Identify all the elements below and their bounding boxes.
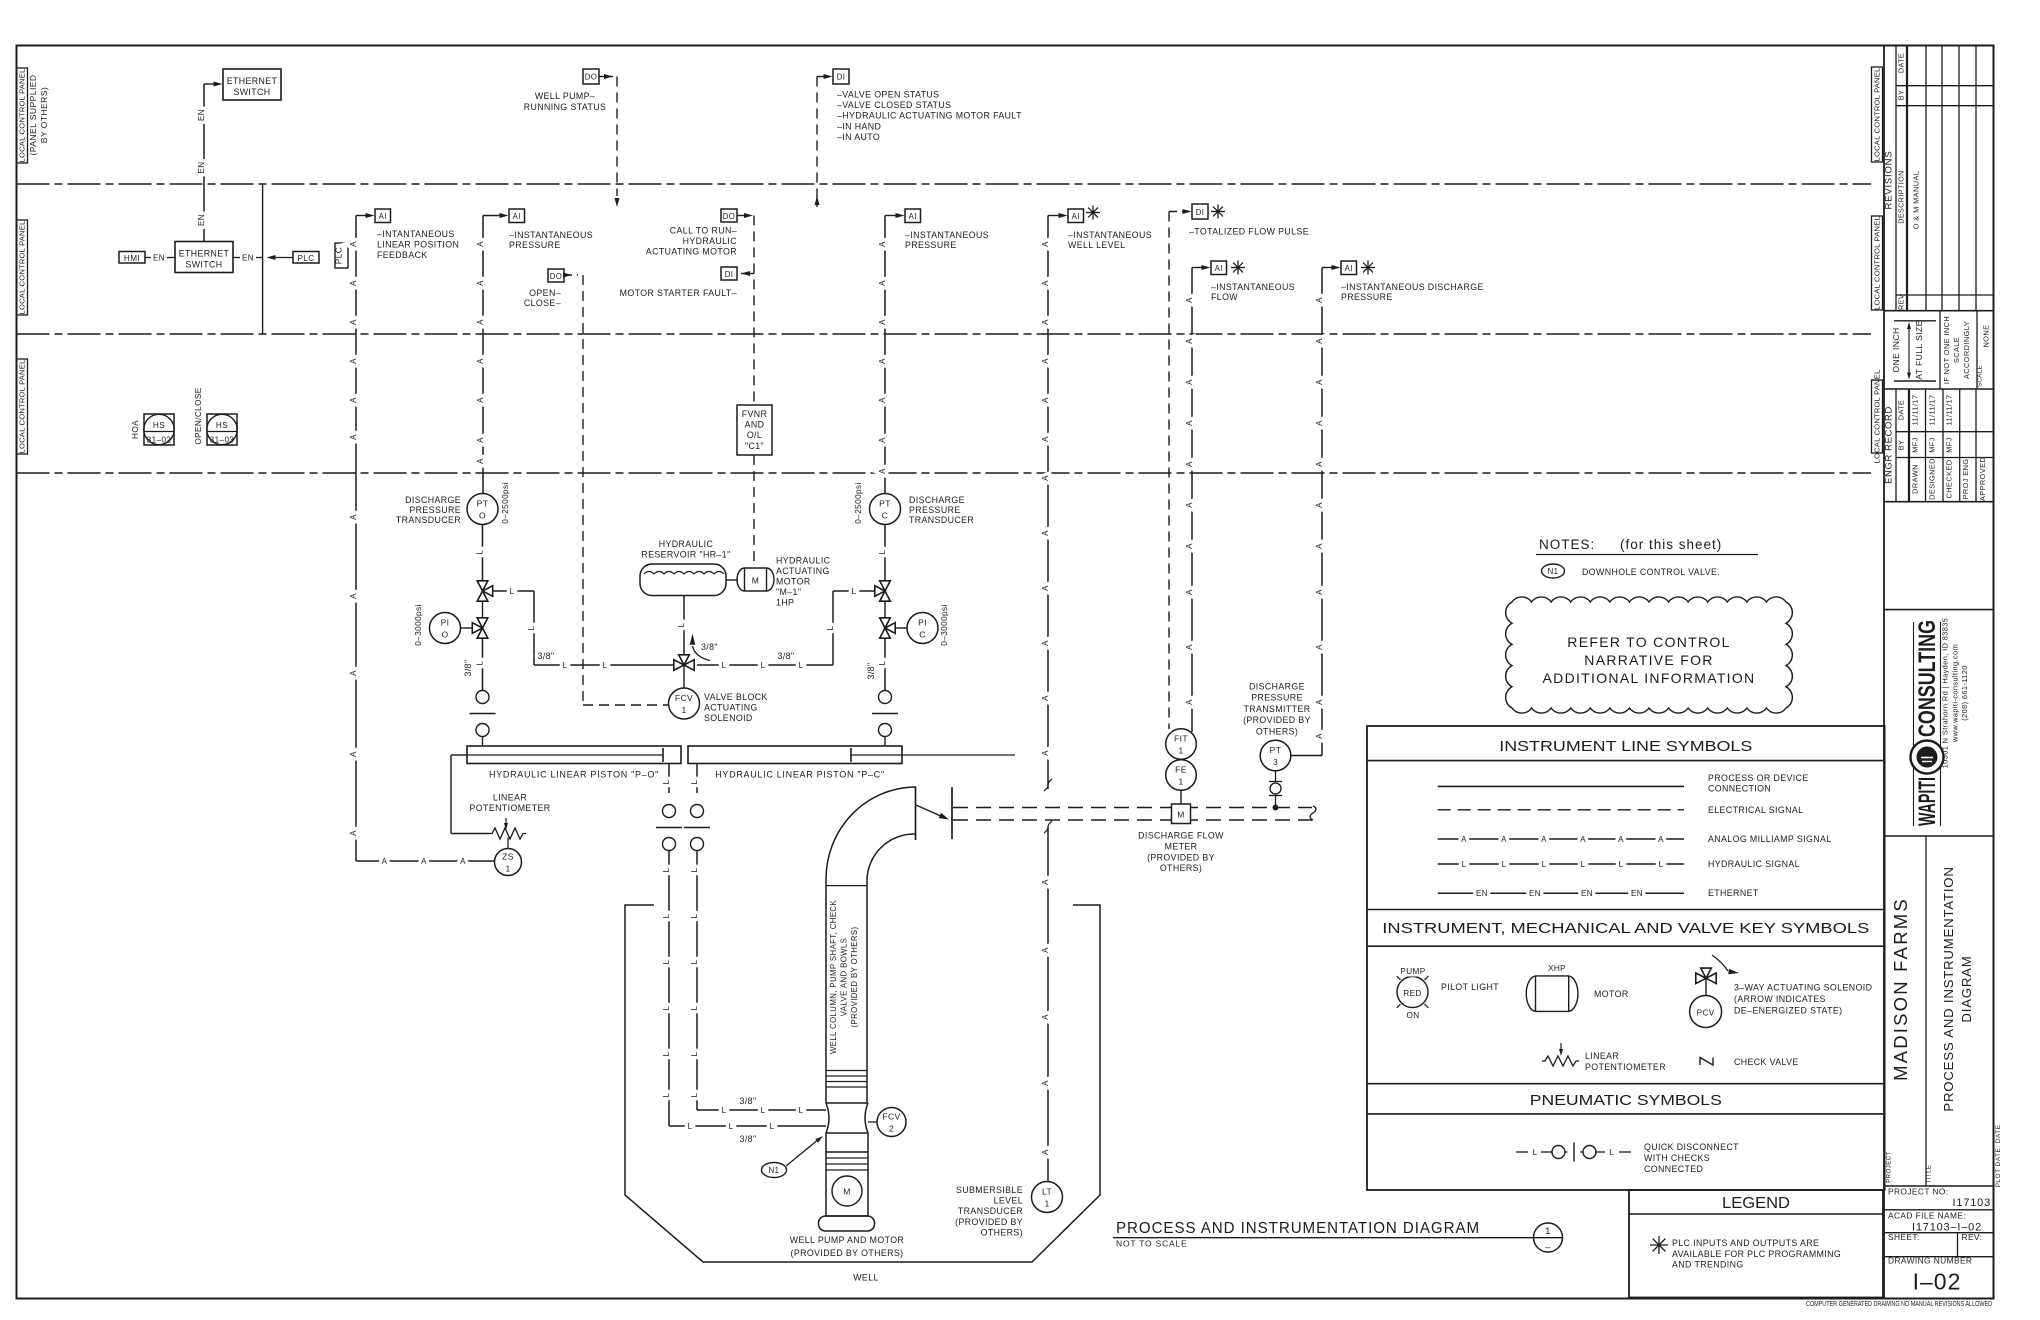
svg-text:0–3000psi: 0–3000psi (414, 604, 423, 645)
analog signal line FIT-1 to AI (1191, 268, 1193, 733)
svg-text:TRANSMITTER: TRANSMITTER (1244, 704, 1311, 714)
asterisk PLC note (1361, 267, 1375, 269)
svg-text:A: A (1185, 379, 1194, 385)
asterisk PLC note (1231, 267, 1245, 269)
svg-text:A: A (1315, 297, 1324, 303)
svg-text:DISCHARGE: DISCHARGE (909, 495, 965, 505)
svg-text:A: A (476, 241, 485, 247)
hydraulic line to quick disconnect C (884, 639, 886, 691)
svg-text:DATE: DATE (1897, 400, 1906, 420)
svg-text:LT: LT (1042, 1187, 1052, 1197)
svg-text:L: L (677, 622, 686, 627)
sample ethernet line (1438, 892, 1684, 894)
svg-text:AVAILABLE FOR PLC PROGRAMMING: AVAILABLE FOR PLC PROGRAMMING (1672, 1249, 1841, 1259)
svg-text:A: A (878, 358, 887, 364)
svg-text:A: A (1041, 695, 1050, 701)
svg-text:1: 1 (681, 705, 686, 715)
svg-text:L: L (662, 1005, 671, 1010)
svg-text:MFJ: MFJ (1945, 437, 1954, 453)
svg-text:CHECK VALVE: CHECK VALVE (1734, 1057, 1799, 1067)
svg-text:A: A (349, 751, 358, 757)
svg-text:NARRATIVE FOR: NARRATIVE FOR (1584, 652, 1713, 668)
right LOCAL CONTROL PANEL label zone 1 (1872, 67, 1883, 162)
svg-text:ETHERNET: ETHERNET (1708, 888, 1759, 898)
svg-text:LEVEL: LEVEL (994, 1196, 1023, 1206)
leader N1 to valve (786, 1139, 819, 1166)
svg-text:PT: PT (1270, 745, 1282, 755)
svg-text:LEGEND: LEGEND (1722, 1195, 1790, 1212)
svg-text:LOCAL CONTROL PANEL: LOCAL CONTROL PANEL (18, 69, 27, 163)
svg-text:FE: FE (1175, 765, 1187, 775)
project number block (1884, 1185, 1994, 1187)
svg-text:1: 1 (505, 864, 510, 874)
well column pipe elbow (826, 787, 916, 879)
svg-text:LOCAL CONTROL PANEL: LOCAL CONTROL PANEL (1873, 68, 1882, 162)
analog signal line PT-3 to AI (1321, 268, 1323, 756)
PLC rotated tag box (335, 243, 348, 268)
svg-text:2: 2 (889, 1124, 894, 1134)
svg-text:(PANEL SUPPLIED: (PANEL SUPPLIED (28, 75, 38, 156)
pump base (819, 1216, 875, 1231)
svg-text:"M–1": "M–1" (776, 587, 801, 597)
well column pipe walls (825, 879, 827, 1103)
svg-text:L: L (662, 1092, 671, 1097)
svg-text:PNEUMATIC SYMBOLS: PNEUMATIC SYMBOLS (1530, 1092, 1722, 1109)
svg-text:DISCHARGE: DISCHARGE (405, 495, 461, 505)
svg-text:3/8": 3/8" (740, 1096, 757, 1106)
svg-text:A: A (1041, 640, 1050, 646)
FVNR starter box (737, 405, 772, 455)
svg-text:DIAGRAM: DIAGRAM (1959, 955, 1974, 1022)
svg-text:WELL PUMP–: WELL PUMP– (535, 91, 595, 101)
hydraulic Z line to FCV-1 left (493, 590, 534, 592)
well column label box (826, 885, 867, 887)
svg-text:A: A (1185, 420, 1194, 426)
svg-text:L: L (761, 1106, 766, 1115)
svg-text:A: A (476, 437, 485, 443)
svg-text:–INSTANTANEOUS: –INSTANTANEOUS (509, 230, 593, 240)
svg-text:CONNECTION: CONNECTION (1708, 784, 1771, 794)
svg-text:(PROVIDED BY: (PROVIDED BY (1147, 852, 1215, 862)
svg-text:PT: PT (879, 499, 891, 509)
svg-text:MOTOR: MOTOR (776, 577, 811, 587)
svg-text:TRANSDUCER: TRANSDUCER (396, 515, 461, 525)
svg-text:A: A (349, 434, 358, 440)
svg-text:PLC: PLC (297, 254, 314, 263)
svg-text:XHP: XHP (1548, 964, 1566, 973)
analog signal line ZS-1 horizontal (356, 860, 495, 862)
svg-text:HYDRAULIC: HYDRAULIC (659, 539, 714, 549)
wire PLC to junction with arrow (271, 257, 293, 259)
svg-text:A: A (1315, 699, 1324, 705)
svg-text:L: L (688, 1122, 693, 1131)
svg-text:A: A (1041, 585, 1050, 591)
AI box instantaneous flow (1211, 261, 1227, 275)
svg-text:A: A (878, 319, 887, 325)
hydraulic line PT-O to valve (482, 525, 484, 581)
svg-text:A: A (349, 397, 358, 403)
svg-text:11/11/17: 11/11/17 (1945, 395, 1954, 426)
svg-text:COMPUTER GENERATED DRAWING NO: COMPUTER GENERATED DRAWING NO MANUAL REV… (1806, 1299, 1992, 1308)
position switch ZS-1 (507, 838, 509, 849)
hand switch HS 31-03 (207, 414, 237, 445)
svg-text:ONE INCH: ONE INCH (1891, 327, 1901, 372)
svg-text:MFJ: MFJ (1928, 437, 1937, 453)
svg-text:L: L (729, 1122, 734, 1131)
sample process connection line (1438, 785, 1684, 787)
svg-text:A: A (1501, 835, 1507, 844)
note bubble N1 legend (1542, 564, 1565, 578)
wire into AI (356, 215, 370, 217)
hydraulic actuating motor M-1 (737, 568, 774, 591)
svg-text:L: L (1542, 860, 1547, 869)
svg-text:L: L (1533, 1148, 1538, 1157)
flow transmitter FIT-1 (1166, 729, 1197, 760)
svg-text:BY: BY (1897, 90, 1906, 100)
svg-text:A: A (1041, 750, 1050, 756)
wire reservoir to motor (726, 579, 738, 581)
svg-text:A: A (1041, 1080, 1050, 1086)
revision cloud refer to control narrative (1506, 597, 1793, 713)
left LOCAL CONTROL PANEL label zone 3 (17, 359, 28, 454)
svg-text:LINEAR: LINEAR (493, 793, 527, 803)
svg-text:3/8": 3/8" (701, 642, 718, 652)
svg-text:L: L (690, 913, 699, 918)
svg-text:A: A (1315, 733, 1324, 739)
svg-text:CALL TO RUN–: CALL TO RUN– (670, 226, 737, 236)
svg-text:DO: DO (585, 73, 598, 82)
svg-text:APPROVED: APPROVED (1978, 457, 1987, 501)
svg-text:ZS: ZS (502, 852, 514, 862)
svg-text:10301 N Strahorn Rd | Hayden,: 10301 N Strahorn Rd | Hayden, ID 83835 (1941, 618, 1950, 769)
svg-text:L: L (799, 661, 804, 670)
svg-text:A: A (349, 241, 358, 247)
svg-text:www.wapiti-consulting.com: www.wapiti-consulting.com (1951, 644, 1960, 743)
svg-text:DOWNHOLE CONTROL VALVE.: DOWNHOLE CONTROL VALVE. (1582, 567, 1720, 577)
panel trunk wire vertical (262, 184, 264, 334)
svg-text:3/8": 3/8" (463, 660, 473, 677)
svg-text:BY OTHERS): BY OTHERS) (39, 87, 49, 143)
svg-text:PUMP: PUMP (1400, 967, 1425, 976)
svg-text:METER: METER (1165, 841, 1198, 851)
svg-text:AI: AI (1072, 212, 1080, 221)
svg-text:M: M (752, 576, 759, 586)
zone separator 3 (dash-dot) (17, 472, 1872, 474)
PLC box (293, 252, 319, 264)
svg-text:FCV: FCV (882, 1112, 900, 1122)
svg-text:1: 1 (1178, 746, 1183, 756)
svg-text:L: L (690, 867, 699, 872)
svg-text:DE–ENERGIZED STATE): DE–ENERGIZED STATE) (1734, 1006, 1842, 1016)
DO box well pump running status (583, 69, 599, 84)
instrument mechanical valve key symbols header (1367, 909, 1885, 911)
svg-text:POTENTIOMETER: POTENTIOMETER (470, 803, 551, 813)
svg-text:A: A (382, 857, 388, 866)
hydraulic line piston P-O to FCV-2 (lower 3/8) (668, 764, 670, 794)
wire into DI box (817, 76, 828, 78)
ethernet switch ES-top box (223, 69, 281, 100)
svg-text:TITLE: TITLE (1926, 1165, 1933, 1184)
left LOCAL CONTROL PANEL label zone 1 (17, 68, 28, 163)
line break at pipe crossing (1044, 779, 1052, 791)
note bubble N1 (762, 1163, 787, 1178)
svg-text:LOCAL CONTROL PANEL: LOCAL CONTROL PANEL (18, 221, 27, 315)
svg-text:L: L (662, 867, 671, 872)
svg-text:A: A (1315, 379, 1324, 385)
svg-text:A: A (878, 280, 887, 286)
left LOCAL CONTROL PANEL label zone 2 (17, 220, 28, 315)
wire between valves O (482, 601, 484, 618)
svg-text:SWITCH: SWITCH (233, 87, 270, 97)
analog signal line PT-O to AI (482, 216, 484, 494)
flow element FE-1 (1166, 760, 1197, 791)
AI box instantaneous pressure close (905, 209, 921, 223)
svg-text:WELL: WELL (853, 1273, 879, 1283)
electrical signal line to FVNR (753, 216, 755, 406)
svg-text:–TOTALIZED FLOW PULSE: –TOTALIZED FLOW PULSE (1189, 227, 1309, 237)
svg-text:1: 1 (1178, 777, 1183, 787)
svg-text:PRESSURE: PRESSURE (909, 505, 961, 515)
svg-text:L: L (1502, 860, 1507, 869)
svg-text:PCV: PCV (1697, 1009, 1715, 1018)
svg-text:C: C (919, 630, 926, 640)
AI box instantaneous pressure open (509, 209, 525, 223)
wire from DO to electrical line (599, 76, 613, 78)
svg-text:A: A (1041, 879, 1050, 885)
svg-text:A: A (1041, 475, 1050, 481)
svg-text:A: A (1315, 461, 1324, 467)
svg-text:N1: N1 (769, 1166, 780, 1175)
quick disconnect symbol (1516, 1151, 1528, 1153)
svg-text:PROJECT: PROJECT (1886, 1151, 1893, 1183)
svg-text:EN: EN (1581, 889, 1593, 898)
svg-text:A: A (1315, 644, 1324, 650)
pressure transducer PT-O (467, 494, 498, 525)
AI box instantaneous discharge pressure (1341, 261, 1357, 275)
well outline (625, 905, 1100, 1262)
svg-text:(PROVIDED BY OTHERS): (PROVIDED BY OTHERS) (791, 1248, 904, 1258)
svg-text:L: L (476, 549, 485, 554)
svg-text:L: L (527, 625, 536, 630)
svg-text:A: A (1041, 436, 1050, 442)
svg-text:N1: N1 (1548, 567, 1559, 576)
svg-text:L: L (690, 1005, 699, 1010)
svg-text:–VALVE CLOSED STATUS: –VALVE CLOSED STATUS (837, 100, 951, 110)
svg-text:1: 1 (1545, 1226, 1551, 1237)
svg-text:I17103: I17103 (1953, 1197, 1991, 1209)
DI box motor starter fault (721, 267, 737, 280)
svg-text:DI: DI (1196, 208, 1205, 217)
pressure transducer PT-C (870, 494, 901, 525)
ethernet wire EN to top switch (203, 84, 205, 242)
FCV-2 bubble (868, 1121, 877, 1123)
svg-text:I–02: I–02 (1913, 1269, 1962, 1295)
svg-text:ENGR RECORD: ENGR RECORD (1884, 406, 1895, 484)
svg-text:–INTANTANEOUS: –INTANTANEOUS (377, 229, 455, 239)
hydraulic line to quick disconnect (482, 639, 484, 691)
svg-text:AI: AI (909, 212, 917, 221)
svg-text:L: L (826, 625, 835, 630)
svg-text:REVISIONS: REVISIONS (1884, 151, 1895, 210)
svg-text:A: A (1041, 241, 1050, 247)
svg-text:NONE: NONE (1982, 325, 1991, 348)
svg-text:A: A (1315, 589, 1324, 595)
electrical signal wire down with arrow (616, 77, 618, 197)
svg-text:1: 1 (1044, 1199, 1049, 1209)
legend box (1629, 1190, 1883, 1298)
svg-text:31–02: 31–02 (147, 436, 172, 445)
svg-text:FEEDBACK: FEEDBACK (377, 250, 428, 260)
svg-text:11/11/17: 11/11/17 (1928, 395, 1937, 426)
svg-text:HYDRAULIC SIGNAL: HYDRAULIC SIGNAL (1708, 859, 1800, 869)
svg-text:WELL LEVEL: WELL LEVEL (1068, 240, 1125, 250)
svg-text:REFER TO CONTROL: REFER TO CONTROL (1567, 634, 1730, 650)
pressure transmitter PT-3 (1260, 740, 1291, 771)
wire into DI (1169, 211, 1187, 213)
svg-text:ETHERNET: ETHERNET (227, 76, 278, 86)
scale block (1884, 388, 1994, 390)
svg-text:A: A (349, 358, 358, 364)
svg-text:L: L (722, 1106, 727, 1115)
electrical signal line FIT-1 to DI (1168, 212, 1170, 730)
svg-text:A: A (1041, 1149, 1050, 1155)
svg-text:–INSTANTANEOUS DISCHARGE: –INSTANTANEOUS DISCHARGE (1341, 282, 1484, 292)
AI box linear position feedback (375, 209, 391, 223)
svg-text:A: A (476, 458, 485, 464)
svg-text:A: A (349, 830, 358, 836)
svg-text:REV:: REV: (1962, 1232, 1983, 1242)
svg-text:PILOT LIGHT: PILOT LIGHT (1441, 982, 1499, 992)
svg-text:A: A (476, 358, 485, 364)
wire into AI (1048, 215, 1063, 217)
svg-text:TRANSDUCER: TRANSDUCER (909, 515, 974, 525)
svg-text:A: A (1315, 338, 1324, 344)
sheet reference bubble (1534, 1223, 1563, 1252)
svg-text:L: L (1462, 860, 1467, 869)
svg-text:DRAWN: DRAWN (1911, 464, 1920, 494)
svg-text:M: M (1177, 810, 1184, 820)
FCV-1 solenoid bubble (683, 665, 685, 688)
svg-text:L: L (662, 1051, 671, 1056)
submersible level transducer LT-1 (1032, 1182, 1063, 1213)
wire switch-EN-junction (233, 257, 240, 259)
svg-text:A: A (1461, 835, 1467, 844)
svg-text:DRAWING NUMBER: DRAWING NUMBER (1888, 1256, 1972, 1266)
svg-text:3: 3 (1273, 757, 1278, 767)
svg-text:L: L (761, 661, 766, 670)
svg-text:FLOW: FLOW (1211, 292, 1238, 302)
svg-text:DESCRIPTION: DESCRIPTION (1897, 170, 1906, 224)
svg-text:L: L (690, 959, 699, 964)
svg-text:POTENTIOMETER: POTENTIOMETER (1585, 1062, 1666, 1072)
wire HMI-EN-switch (145, 257, 151, 259)
svg-text:"C1": "C1" (745, 441, 764, 451)
right LOCAL CONTROL PANEL label zone 2 (1872, 216, 1883, 310)
zone separator 2 (dash-dot) (17, 333, 1872, 335)
svg-text:WAPITI: WAPITI (1914, 777, 1941, 826)
svg-text:AT FULL SIZE: AT FULL SIZE (1914, 320, 1924, 380)
linear potentiometer symbol (1542, 1056, 1579, 1066)
svg-text:EN: EN (197, 109, 206, 121)
PT-3 isolation valve (1275, 771, 1277, 781)
sample electrical signal line (1438, 809, 1684, 811)
svg-text:A: A (1185, 543, 1194, 549)
svg-text:A: A (1041, 1014, 1050, 1020)
svg-text:LOCAL CONTROL PANEL: LOCAL CONTROL PANEL (1873, 216, 1882, 310)
svg-text:A: A (1185, 338, 1194, 344)
svg-text:MOTOR STARTER FAULT–: MOTOR STARTER FAULT– (620, 288, 737, 298)
svg-text:A: A (878, 241, 887, 247)
svg-text:L: L (510, 587, 515, 596)
svg-text:–: – (1545, 1242, 1551, 1253)
svg-text:HMI: HMI (124, 254, 140, 263)
svg-text:L: L (563, 661, 568, 670)
svg-text:WELL PUMP AND MOTOR: WELL PUMP AND MOTOR (790, 1235, 905, 1245)
svg-text:0–2500psi: 0–2500psi (854, 482, 863, 523)
junction dot on pipe (1273, 805, 1279, 811)
svg-text:SUBMERSIBLE: SUBMERSIBLE (956, 1185, 1023, 1195)
svg-text:11/11/17: 11/11/17 (1911, 395, 1920, 426)
svg-text:PT: PT (477, 499, 489, 509)
svg-text:L: L (878, 660, 887, 665)
svg-text:A: A (1041, 319, 1050, 325)
svg-text:DO: DO (550, 272, 563, 281)
svg-text:RUNNING STATUS: RUNNING STATUS (524, 102, 607, 112)
asterisk legend (1650, 1244, 1668, 1246)
svg-text:OTHERS): OTHERS) (1256, 726, 1298, 736)
svg-text:3/8": 3/8" (740, 1134, 757, 1144)
wire FE to meter (1180, 790, 1182, 804)
svg-text:–HYDRAULIC ACTUATING MOTOR FAU: –HYDRAULIC ACTUATING MOTOR FAULT (837, 111, 1022, 121)
svg-text:A: A (349, 280, 358, 286)
svg-text:SCALE: SCALE (1977, 365, 1984, 387)
sample hydraulic signal line (1438, 863, 1684, 865)
3-way solenoid symbol (1696, 973, 1706, 984)
svg-text:3–WAY ACTUATING SOLENOID: 3–WAY ACTUATING SOLENOID (1734, 983, 1872, 993)
svg-text:A: A (1658, 835, 1664, 844)
svg-text:A: A (1185, 502, 1194, 508)
svg-text:TRANSDUCER: TRANSDUCER (958, 1206, 1023, 1216)
zone separator 1 (dash-dot) (17, 183, 1872, 185)
svg-text:DI: DI (837, 73, 846, 82)
svg-text:O: O (479, 511, 486, 521)
svg-text:OTHERS): OTHERS) (1160, 863, 1202, 873)
svg-text:ACTUATING: ACTUATING (776, 566, 830, 576)
gauge 3-way valve V-C2 (880, 618, 891, 628)
svg-text:LINEAR POSITION: LINEAR POSITION (377, 239, 459, 249)
svg-text:L: L (690, 1051, 699, 1056)
svg-text:EN: EN (1476, 889, 1488, 898)
motor symbol (1526, 976, 1578, 1012)
svg-text:(PROVIDED BY: (PROVIDED BY (1243, 715, 1311, 725)
svg-text:HS: HS (153, 421, 165, 430)
hydraulic linear piston P-C (688, 746, 902, 764)
svg-text:AND TRENDING: AND TRENDING (1672, 1260, 1744, 1270)
svg-text:HYDRAULIC LINEAR PISTON "P–C": HYDRAULIC LINEAR PISTON "P–C" (715, 770, 885, 780)
svg-text:LOCAL CONTROL PANEL: LOCAL CONTROL PANEL (1873, 370, 1882, 464)
electrical line FVNR to motor (753, 455, 755, 562)
svg-text:ETHERNET: ETHERNET (179, 249, 230, 259)
hydraulic line reservoir to FCV-1 valve (683, 596, 685, 655)
flow meter M box (1172, 804, 1191, 824)
instrument line symbols box (1367, 726, 1885, 1190)
svg-text:FIT: FIT (1174, 734, 1188, 744)
madison farms project block (1925, 836, 1927, 1186)
hydraulic Z line to FCV-1 right (833, 590, 875, 592)
ethernet switch ES-panel box (175, 242, 233, 273)
well pump and motor (825, 1133, 827, 1152)
svg-text:A: A (878, 397, 887, 403)
